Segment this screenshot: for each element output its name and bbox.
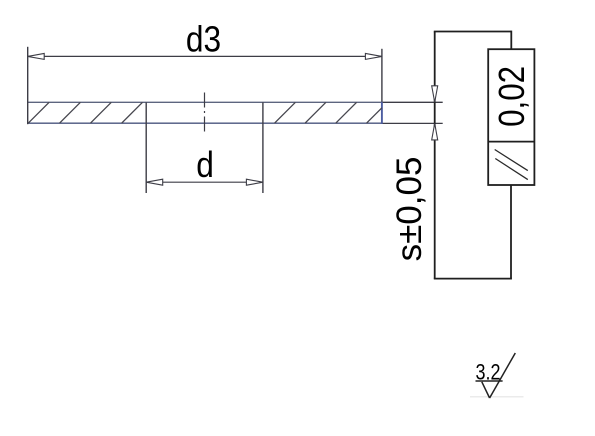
dimension d3: dimension line [28,55,382,57]
leader drop into frame top [510,31,512,50]
dimension d: left arrowhead [146,179,163,185]
hatching left section [28,102,142,123]
dimension s: top extension line [383,101,443,103]
dimension s: bottom extension line [383,122,443,124]
svg-text:d3: d3 [186,20,221,60]
surface roughness symbol: left flank [482,382,490,398]
dimension s: upper arrowhead (pointing down) [432,86,438,103]
dimension d: right arrowhead [246,179,263,185]
hatching right section [275,102,382,123]
surface roughness symbol: right flank with tail [490,353,516,398]
leader bottom horizontal [434,278,512,280]
svg-text:d: d [196,145,214,185]
tolerance frame box [488,49,534,185]
hole right edge + d extension line [262,102,264,193]
dimension s: vertical dimension line / leader left side [434,32,436,279]
svg-text:s±0,05: s±0,05 [390,157,429,262]
tolerance frame divider [488,141,534,143]
dimension d: dimension line [146,181,263,183]
washer top edge [27,101,382,103]
leader bottom drop from frame [510,185,512,279]
dimension d3: left arrowhead [28,53,45,59]
washer right edge (blue) [381,102,383,124]
dimension d3: right extension line [381,49,383,102]
washer left edge + d3 extension line [27,47,29,124]
parallelism symbol (rotated //) [495,150,528,171]
centerline (dash-dot axis) [204,93,206,133]
leader top horizontal to tolerance frame [434,31,512,33]
dimension s: lower arrowhead (pointing up) [432,123,438,139]
svg-text:3.2: 3.2 [475,361,500,385]
dimension d3: right arrowhead [365,53,382,59]
hole left edge + d extension line [145,102,147,193]
surface roughness symbol: bar over triangle [476,380,503,382]
faint underline artifact near roughness symbol [470,396,524,398]
svg-text:0,02: 0,02 [492,66,533,127]
washer bottom edge [27,122,382,124]
